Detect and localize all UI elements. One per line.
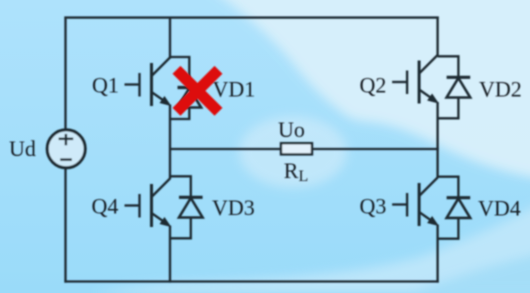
wire left leg middle	[169, 105, 171, 180]
wire left leg upper	[169, 17, 171, 59]
resistor RL	[281, 143, 312, 154]
diode VD2	[438, 56, 471, 118]
fault cross on VD1	[177, 70, 219, 112]
svg-text:VD4: VD4	[478, 196, 521, 221]
svg-text:Q1: Q1	[92, 72, 119, 97]
wire left upper	[64, 17, 66, 132]
svg-text:Q3: Q3	[360, 194, 387, 219]
wire left lower	[64, 169, 66, 283]
wire top	[64, 16, 438, 18]
transistor Q4	[125, 179, 172, 228]
source Ud	[47, 130, 85, 168]
wire output right	[312, 148, 439, 150]
svg-text:Q4: Q4	[92, 194, 119, 219]
transistor Q3	[392, 178, 439, 227]
wire right leg upper	[436, 17, 438, 57]
diode VD3	[170, 176, 203, 238]
wire left leg lower	[169, 226, 171, 283]
svg-text:Q2: Q2	[360, 73, 387, 98]
svg-text:Uo: Uo	[278, 117, 305, 142]
wire right leg middle	[436, 102, 438, 178]
wire output left	[169, 148, 282, 150]
transistor Q2	[392, 55, 439, 104]
diode VD1	[170, 57, 201, 119]
svg-text:VD2: VD2	[479, 77, 522, 102]
svg-text:VD1: VD1	[213, 76, 256, 101]
wire bottom	[64, 280, 438, 282]
wire right leg lower	[436, 225, 438, 283]
svg-text:Ud: Ud	[9, 136, 36, 161]
diode VD4	[438, 177, 471, 239]
transistor Q1	[125, 58, 172, 107]
svg-text:VD3: VD3	[212, 195, 255, 220]
